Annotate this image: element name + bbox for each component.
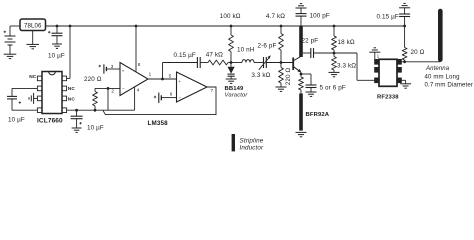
svg-text:100 kΩ: 100 kΩ	[220, 13, 241, 20]
svg-text:0.15 µF: 0.15 µF	[173, 52, 195, 59]
svg-text:LM358: LM358	[148, 120, 169, 127]
svg-text:4.7 kΩ: 4.7 kΩ	[266, 13, 285, 20]
ground - battery negative	[4, 53, 17, 55]
svg-text:2-6 pF: 2-6 pF	[258, 43, 277, 50]
svg-text:ICL7660: ICL7660	[37, 117, 63, 124]
svg-text:10 µF: 10 µF	[8, 116, 25, 123]
ground - ICL7660 pin 3	[34, 97, 37, 99]
wire - RF2338 output to antenna	[401, 61, 440, 63]
resistor 4.7 kilohm from rail to base	[280, 25, 283, 28]
resistor 47 kilohm feedback	[200, 62, 208, 64]
resistor 3.3 kilohm output divider to ground	[333, 52, 336, 55]
svg-text:7: 7	[211, 88, 214, 93]
svg-text:40 mm Long: 40 mm Long	[425, 74, 460, 81]
ground - RF2338 output side pin	[401, 79, 405, 81]
capacitor 22 pF output coupling	[303, 52, 311, 54]
IC U2 ICL7660 DIP-8 body	[42, 72, 62, 114]
inductor - stripline legend bar	[232, 134, 235, 151]
node - emitter junction	[300, 73, 303, 76]
svg-text:2: 2	[111, 89, 114, 94]
op-amp U1B LM358	[177, 72, 208, 102]
wire - op-amp pin 4 V- connection	[134, 87, 136, 110]
svg-text:RF2338: RF2338	[377, 95, 399, 101]
ground - RF2338 pin 1 above	[374, 52, 376, 59]
svg-text:3.3 kΩ: 3.3 kΩ	[337, 63, 356, 70]
ground - 78L06 common	[26, 43, 39, 45]
capacitor 100 pF rail bypass with ground above	[296, 7, 307, 9]
op-amp U1A LM358	[120, 63, 148, 96]
svg-text:+: +	[178, 79, 181, 84]
wire - ICL7660 pin5 negative supply run	[67, 109, 135, 111]
varactor D1 BB149 to ground	[230, 61, 233, 64]
resistor 100 kilohm from rail	[230, 25, 233, 28]
svg-text:100 pF: 100 pF	[310, 13, 330, 20]
capacitor 0.15 uF rail bypass with ground above	[403, 25, 406, 28]
regulator 78L06	[20, 19, 46, 31]
svg-text:78L06: 78L06	[24, 22, 42, 29]
svg-text:0.15 µF: 0.15 µF	[376, 13, 398, 20]
capacitor 5 or 6 pF emitter to ground	[301, 73, 311, 75]
battery - offset source at pin 3	[99, 65, 101, 67]
capacitor 10 uF output reservoir with ground	[76, 110, 78, 116]
svg-text:NC: NC	[68, 86, 76, 92]
wire - op-amp pin 8 V+ to rail	[135, 25, 138, 28]
capacitor 10 uF input bypass	[56, 25, 59, 28]
svg-text:10 nH: 10 nH	[237, 47, 255, 54]
svg-text:47 kΩ: 47 kΩ	[206, 51, 223, 58]
svg-text:0.7 mm Diameter: 0.7 mm Diameter	[425, 82, 474, 89]
svg-text:BB149: BB149	[225, 86, 245, 92]
ground - input cap	[52, 43, 62, 45]
battery B1 9V input with ground	[10, 25, 20, 27]
wire - feedback loop from op-amp B output	[103, 87, 216, 115]
svg-text:Stripline: Stripline	[240, 137, 264, 144]
resistor 20 ohm antenna feed	[404, 26, 406, 48]
IC U3 RF2338 body	[379, 59, 397, 86]
transistor Q1 BFR92A	[292, 58, 294, 71]
svg-text:1: 1	[149, 72, 152, 77]
svg-text:Varactor: Varactor	[225, 93, 249, 99]
svg-text:10 µF: 10 µF	[48, 53, 65, 60]
ground - emitter cap	[306, 91, 317, 93]
svg-text:1: 1	[377, 53, 380, 58]
svg-text:5 or 6 pF: 5 or 6 pF	[320, 85, 346, 92]
ground - output divider	[329, 71, 340, 73]
wire - 78L06 ground pin	[32, 31, 34, 45]
capacitor 0.15 uF feedback	[162, 63, 164, 80]
wire - divider to RF2338 input pin	[334, 52, 357, 54]
svg-text:Inductor: Inductor	[240, 145, 264, 152]
svg-text:BFR92A: BFR92A	[306, 112, 330, 118]
wire - main V+ rail from regulator output across top	[46, 25, 405, 27]
svg-text:22 pF: 22 pF	[302, 38, 319, 45]
svg-text:+: +	[122, 68, 125, 73]
resistor 220 ohm emitter	[300, 74, 302, 77]
resistor 18 kilohm from rail	[333, 25, 336, 28]
resistor 3.3 kilohm base to ground	[280, 61, 283, 64]
svg-text:20 Ω: 20 Ω	[411, 49, 425, 56]
battery - offset source at pin 6	[154, 96, 156, 98]
inductor - emitter stripline to ground (thick bar)	[299, 93, 303, 130]
ground - varactor cathode	[226, 78, 237, 80]
svg-text:Antenna: Antenna	[425, 66, 450, 72]
wire - op-amp A output to op-amp B input	[148, 78, 177, 80]
ground - output cap	[72, 127, 82, 129]
svg-text:5: 5	[169, 74, 172, 79]
capacitor C2 10 uF charge pump between pin2 and pin4	[12, 87, 37, 89]
wire - rail to ICL7660 pin 8	[69, 25, 72, 28]
ground - emitter stripline	[296, 131, 307, 133]
antenna - thick rod	[438, 11, 443, 60]
svg-text:220 Ω: 220 Ω	[84, 76, 102, 83]
capacitor trimmer 2-6 pF	[263, 57, 265, 68]
svg-text:4: 4	[137, 87, 140, 92]
svg-text:3.3 kΩ: 3.3 kΩ	[251, 72, 270, 79]
svg-text:10 µF: 10 µF	[87, 125, 104, 132]
resistor 220 ohm op-amp input	[95, 87, 120, 89]
wire - inverting input node down to V- bracket	[107, 87, 110, 90]
svg-text:18 kΩ: 18 kΩ	[338, 39, 355, 46]
svg-text:NC: NC	[68, 97, 76, 103]
inductor 10 nH	[231, 62, 242, 64]
svg-text:3: 3	[111, 64, 114, 69]
svg-text:220 Ω: 220 Ω	[285, 68, 292, 86]
svg-text:8: 8	[138, 62, 141, 67]
inductor - collector stripline (thick bar)	[299, 26, 303, 57]
svg-text:NC: NC	[29, 74, 37, 80]
ground - base divider	[276, 86, 287, 88]
svg-text:−: −	[179, 96, 182, 101]
svg-text:6: 6	[170, 91, 173, 96]
svg-text:−: −	[122, 87, 125, 92]
